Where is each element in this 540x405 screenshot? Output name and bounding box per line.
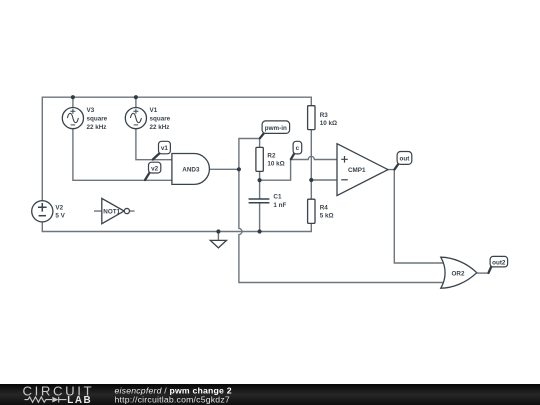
svg-text:LAB: LAB: [67, 395, 92, 405]
wire V1 top stub: [135, 97, 137, 107]
node v1: [153, 141, 171, 159]
voltage source V1: [125, 107, 170, 131]
svg-text:5 kΩ: 5 kΩ: [320, 212, 334, 219]
svg-text:10 kΩ: 10 kΩ: [320, 120, 337, 127]
wire V3 to AND3 lower input: [73, 129, 172, 181]
svg-text:http://circuitlab.com/c5gkdz7: http://circuitlab.com/c5gkdz7: [115, 395, 230, 405]
comparator CMP1: [337, 144, 388, 196]
wire R3 bottom to R4 top: [310, 130, 312, 200]
svg-text:v1: v1: [161, 145, 169, 152]
inverter NOT1: [102, 198, 130, 223]
and gate AND3: [172, 154, 210, 185]
svg-text:22 kHz: 22 kHz: [150, 124, 170, 131]
wire V1 to AND3 upper input: [136, 129, 172, 160]
CircuitLab logo waveform: [25, 397, 67, 403]
voltage source V2: [32, 201, 66, 222]
wire AND3 output: [209, 168, 239, 170]
node c: [291, 141, 302, 159]
junction dot AND3 output node: [237, 167, 241, 171]
svg-text:22 kHz: 22 kHz: [87, 124, 107, 131]
svg-text:C1: C1: [273, 194, 282, 201]
wire OR2 output: [477, 272, 488, 274]
svg-text:out2: out2: [492, 259, 506, 266]
node out: [395, 152, 412, 170]
svg-text:CMP1: CMP1: [348, 167, 366, 174]
junction dot R3/R4 node: [309, 178, 313, 182]
svg-text:V2: V2: [55, 204, 63, 211]
svg-text:v2: v2: [151, 165, 159, 172]
wire AND3 output down to OR2 lower input with hop: [239, 169, 444, 282]
wire R3/R4 node to CMP1 minus input: [311, 179, 337, 181]
svg-text:5 V: 5 V: [55, 212, 65, 219]
wire node c to CMP1 plus input with hop: [260, 156, 337, 180]
resistor R4: [308, 199, 334, 223]
svg-text:10 kΩ: 10 kΩ: [267, 161, 284, 168]
junction dot V1 top: [134, 95, 138, 99]
wire NOT1 input stub: [94, 210, 102, 212]
wire top rail and left rail: [42, 97, 311, 201]
wire bottom ground rail: [42, 222, 311, 232]
junction dot ground node: [216, 229, 220, 233]
junction dot R2/C1 node: [258, 178, 262, 182]
svg-text:R2: R2: [267, 152, 276, 159]
wire C1 bottom to ground rail: [259, 203, 261, 232]
resistor R2: [256, 147, 285, 171]
junction dot C1 bottom node: [258, 229, 262, 233]
junction dot V3 top: [71, 95, 75, 99]
svg-text:out: out: [400, 156, 411, 163]
svg-text:pwm-in: pwm-in: [265, 125, 287, 132]
wire V3 top stub: [72, 97, 74, 107]
svg-text:V3: V3: [87, 107, 95, 114]
wire R2 bottom to C1 top: [259, 171, 261, 199]
svg-text:1 nF: 1 nF: [273, 202, 286, 209]
svg-text:square: square: [150, 115, 171, 122]
svg-text:R4: R4: [320, 204, 329, 211]
svg-text:c: c: [296, 145, 300, 152]
svg-text:NOT1: NOT1: [103, 208, 120, 215]
svg-text:square: square: [87, 115, 108, 122]
wire NOT1 output stub: [130, 210, 135, 212]
node out2: [489, 256, 508, 273]
or gate OR2: [441, 257, 477, 288]
ground: [210, 240, 226, 248]
svg-text:OR2: OR2: [452, 271, 465, 278]
node v2: [145, 162, 161, 180]
wire AND3 output to R2 top (pwm-in node): [239, 139, 260, 170]
voltage source V3: [62, 107, 107, 131]
svg-text:V1: V1: [150, 107, 158, 114]
wire ground stub: [217, 232, 219, 241]
capacitor C1: [249, 194, 287, 210]
svg-text:R3: R3: [320, 112, 329, 119]
svg-text:AND3: AND3: [182, 167, 200, 174]
resistor R3: [308, 106, 337, 130]
node pwm-in: [260, 121, 290, 138]
wire CMP1 output to OR2 upper input: [388, 170, 444, 263]
